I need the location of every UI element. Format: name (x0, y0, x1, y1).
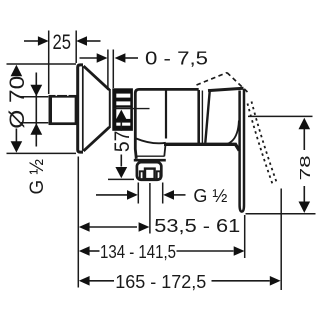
svg-text:Ø 70: Ø 70 (6, 76, 29, 129)
dimension 165 - 172,5 (79, 189, 281, 291)
svg-text:53,5 - 61: 53,5 - 61 (154, 216, 240, 236)
wall plane extension line (77, 157, 79, 288)
escutcheon wall flange (78, 65, 83, 152)
svg-text:78: 78 (297, 155, 314, 180)
dimension Ø 70 (left) (7, 64, 77, 153)
svg-text:25: 25 (52, 31, 71, 54)
dimension 78 (right) (246, 116, 316, 213)
svg-text:134 - 141,5: 134 - 141,5 (100, 242, 176, 262)
dimension 25 (top) (24, 31, 101, 95)
thread notches on nipple (56, 94, 69, 95)
dashed handle open position (top) (197, 73, 249, 93)
svg-text:165 - 172,5: 165 - 172,5 (115, 272, 206, 292)
threaded nipple G1/2 (50, 95, 76, 125)
dimension 134 - 141,5 (79, 215, 245, 258)
outlet flange (134, 156, 166, 160)
dimension 0 - 7,5 (80, 50, 139, 91)
valve body outline (135, 89, 239, 158)
dimension G 1/2 (left, nipple) (21, 73, 48, 147)
svg-text:G ½: G ½ (193, 186, 227, 206)
dimension 57 (108, 109, 150, 180)
svg-text:G ½: G ½ (27, 159, 48, 195)
dimension 53,5 - 61 (79, 222, 150, 232)
svg-text:0 - 7,5: 0 - 7,5 (145, 48, 208, 68)
svg-text:57: 57 (111, 131, 134, 153)
dimension G 1/2 (outlet) (96, 183, 186, 204)
handle hub (205, 88, 243, 144)
node: outlet centre line (149, 183, 151, 234)
escutcheon cone (84, 66, 110, 151)
dashed handle swing arc (248, 102, 277, 185)
outlet nut G1/2 (137, 162, 161, 180)
handle lever blade (240, 89, 244, 212)
union nut (112, 88, 133, 131)
